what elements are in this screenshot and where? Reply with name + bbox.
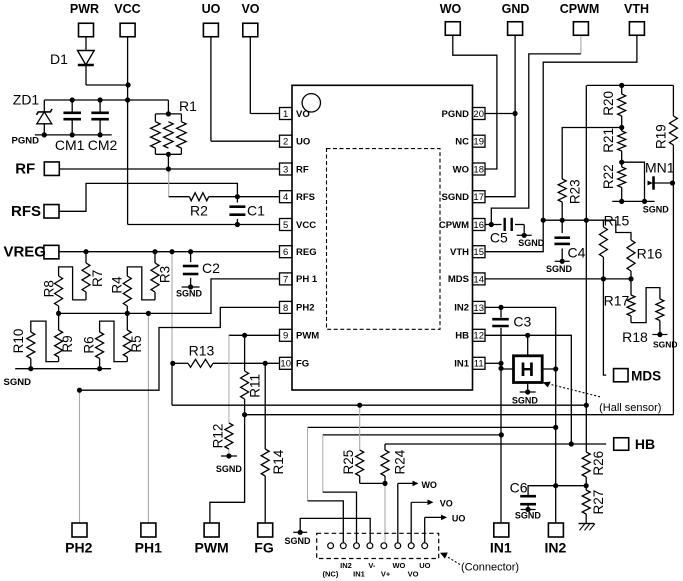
svg-text:PWM: PWM (194, 540, 228, 556)
svg-text:R24: R24 (393, 449, 408, 474)
svg-text:PGND: PGND (12, 136, 40, 147)
svg-text:R4: R4 (110, 276, 125, 294)
svg-text:R22: R22 (601, 164, 616, 189)
svg-text:V-: V- (368, 561, 376, 570)
svg-text:HB: HB (455, 331, 469, 342)
svg-text:C2: C2 (202, 260, 220, 276)
svg-text:10: 10 (280, 359, 291, 370)
svg-text:(NC): (NC) (322, 570, 338, 579)
svg-text:HB: HB (635, 436, 655, 452)
svg-text:R23: R23 (567, 179, 582, 204)
svg-text:R19: R19 (653, 124, 668, 149)
svg-text:SGND: SGND (653, 339, 678, 349)
svg-text:17: 17 (473, 192, 484, 203)
svg-text:SGND: SGND (546, 264, 573, 274)
svg-text:SGND: SGND (216, 464, 243, 474)
svg-text:MN1: MN1 (645, 159, 675, 175)
svg-text:SGND: SGND (643, 205, 670, 215)
svg-text:IN2: IN2 (454, 303, 469, 314)
svg-text:4: 4 (283, 192, 288, 203)
svg-text:R3: R3 (158, 266, 173, 283)
svg-text:PH 1: PH 1 (296, 274, 318, 285)
svg-text:UO: UO (296, 137, 310, 148)
svg-text:CPWM: CPWM (439, 220, 469, 231)
svg-text:13: 13 (473, 303, 484, 314)
svg-text:11: 11 (474, 359, 484, 370)
svg-text:20: 20 (473, 109, 484, 120)
svg-text:R8: R8 (41, 280, 56, 297)
svg-text:R2: R2 (190, 203, 208, 219)
svg-text:R26: R26 (591, 451, 606, 476)
svg-text:C3: C3 (513, 314, 531, 330)
svg-text:IN2: IN2 (340, 561, 352, 570)
svg-text:PGND: PGND (442, 109, 470, 120)
svg-text:R27: R27 (591, 490, 606, 515)
svg-text:MDS: MDS (631, 369, 661, 384)
svg-text:R9: R9 (60, 335, 75, 352)
svg-text:UO: UO (452, 513, 466, 523)
svg-text:VTH: VTH (450, 247, 469, 258)
svg-text:(Hall sensor): (Hall sensor) (599, 402, 661, 414)
svg-text:IN1: IN1 (490, 539, 512, 555)
svg-text:SGND: SGND (518, 238, 545, 248)
svg-text:UO: UO (202, 2, 221, 16)
svg-text:WO: WO (392, 561, 405, 570)
svg-text:R20: R20 (601, 91, 616, 116)
svg-text:3: 3 (283, 164, 288, 175)
svg-text:SGND: SGND (442, 192, 470, 203)
svg-text:VO: VO (241, 2, 259, 16)
svg-text:R11: R11 (247, 374, 262, 398)
svg-text:SGND: SGND (176, 289, 203, 299)
svg-text:IN2: IN2 (545, 539, 567, 555)
svg-text:VO: VO (296, 109, 310, 120)
svg-text:R18: R18 (622, 329, 648, 345)
svg-text:18: 18 (473, 164, 484, 175)
svg-text:PH2: PH2 (296, 303, 314, 314)
svg-text:WO: WO (440, 2, 462, 16)
svg-text:R5: R5 (129, 335, 144, 352)
svg-text:C6: C6 (510, 479, 528, 495)
svg-text:15: 15 (473, 247, 484, 258)
svg-text:R7: R7 (90, 270, 105, 287)
svg-text:C5: C5 (490, 229, 508, 245)
svg-text:R15: R15 (604, 213, 630, 229)
svg-text:VTH: VTH (624, 2, 649, 16)
svg-text:R6: R6 (82, 336, 97, 353)
svg-text:6: 6 (283, 247, 288, 258)
svg-text:VCC: VCC (296, 220, 316, 231)
svg-text:19: 19 (473, 137, 484, 148)
svg-text:9: 9 (283, 331, 288, 342)
svg-text:R16: R16 (637, 246, 663, 262)
svg-text:VO: VO (408, 570, 419, 579)
svg-text:V+: V+ (381, 570, 391, 579)
svg-text:UO: UO (419, 561, 430, 570)
svg-text:RF: RF (15, 161, 35, 178)
svg-text:MDS: MDS (448, 274, 469, 285)
svg-text:VO: VO (440, 499, 453, 509)
svg-text:CM2: CM2 (88, 137, 118, 153)
svg-text:FG: FG (296, 359, 309, 370)
svg-text:R1: R1 (179, 98, 197, 114)
svg-text:REG: REG (296, 247, 317, 258)
svg-text:SGND: SGND (284, 536, 311, 546)
svg-text:VCC: VCC (114, 2, 140, 16)
svg-text:ZD1: ZD1 (13, 92, 40, 108)
svg-text:PWM: PWM (296, 331, 319, 342)
svg-text:IN1: IN1 (454, 359, 470, 370)
svg-text:8: 8 (283, 303, 288, 314)
svg-text:R13: R13 (189, 342, 215, 358)
svg-text:C1: C1 (247, 203, 265, 219)
svg-text:D1: D1 (50, 51, 68, 67)
svg-text:RF: RF (296, 164, 309, 175)
svg-text:14: 14 (473, 274, 484, 285)
svg-text:VREG: VREG (3, 244, 46, 261)
svg-text:SGND: SGND (515, 511, 542, 521)
svg-text:PWR: PWR (70, 2, 99, 16)
svg-text:RFS: RFS (11, 203, 41, 220)
svg-text:16: 16 (473, 220, 484, 231)
svg-text:5: 5 (283, 220, 288, 231)
svg-text:7: 7 (283, 274, 288, 285)
svg-text:CM1: CM1 (55, 137, 85, 153)
svg-text:RFS: RFS (296, 192, 315, 203)
svg-text:H: H (520, 360, 534, 381)
svg-text:12: 12 (473, 331, 484, 342)
svg-text:SGND: SGND (512, 396, 539, 406)
svg-text:R17: R17 (604, 293, 630, 309)
svg-text:R25: R25 (341, 450, 356, 475)
svg-text:(Connector): (Connector) (461, 562, 519, 574)
svg-text:IN1: IN1 (353, 570, 365, 579)
svg-text:GND: GND (502, 2, 530, 16)
svg-text:R14: R14 (271, 449, 286, 474)
svg-text:R10: R10 (11, 329, 26, 354)
svg-text:C4: C4 (568, 245, 586, 261)
svg-text:NC: NC (455, 137, 469, 148)
svg-text:CPWM: CPWM (560, 2, 600, 16)
svg-text:PH2: PH2 (65, 540, 92, 556)
svg-text:2: 2 (283, 137, 288, 148)
svg-text:SGND: SGND (4, 377, 32, 388)
svg-text:PH1: PH1 (135, 540, 162, 556)
svg-text:WO: WO (453, 164, 469, 175)
svg-text:FG: FG (254, 540, 274, 556)
svg-text:R12: R12 (210, 424, 225, 449)
svg-text:1: 1 (283, 109, 288, 120)
svg-text:WO: WO (421, 480, 437, 490)
svg-text:R21: R21 (601, 128, 616, 153)
